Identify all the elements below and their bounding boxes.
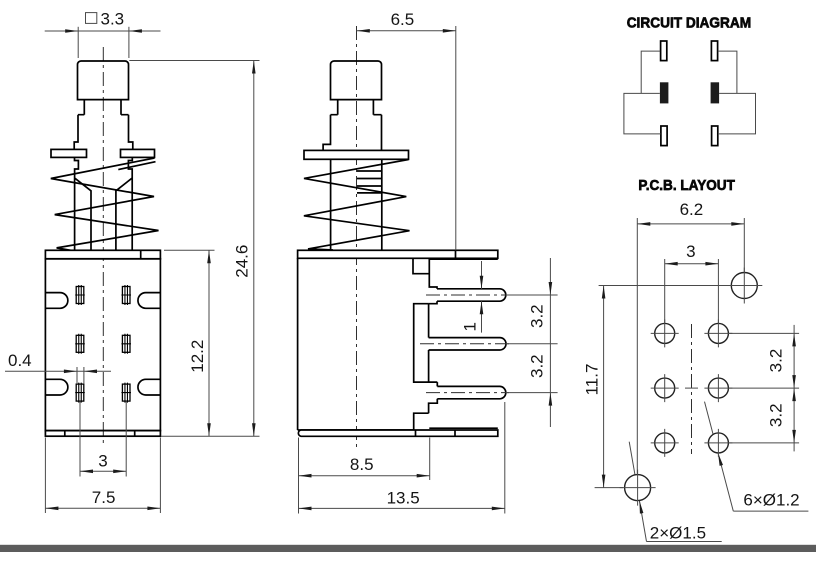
side notch top-left (front) bbox=[45, 293, 67, 309]
hole small r1c2 bbox=[704, 319, 732, 347]
dimension 3 (pin spacing, front) bbox=[80, 402, 126, 477]
dimension 3.2 lower (pin pitch, side) bbox=[528, 354, 547, 378]
dimension 1 (pin thickness) bbox=[460, 261, 483, 333]
hole small r1c1 bbox=[651, 319, 679, 347]
dimension 3.2 upper (pin pitch, side) bbox=[506, 258, 558, 427]
svg-text:3.3: 3.3 bbox=[101, 9, 125, 28]
pin row3 right (front) bbox=[121, 383, 131, 403]
pin 2 center line bbox=[420, 343, 509, 345]
svg-text:3.2: 3.2 bbox=[528, 354, 547, 378]
label 2 x dia 1.5 bbox=[647, 524, 722, 543]
svg-text:11.7: 11.7 bbox=[583, 364, 602, 396]
svg-text:24.6: 24.6 bbox=[233, 245, 252, 278]
body top plate (front) bbox=[45, 250, 160, 258]
button stem upper (side) bbox=[331, 100, 382, 115]
shaft left wall with jog (front) bbox=[75, 157, 79, 250]
title: P.C.B. LAYOUT bbox=[638, 178, 735, 194]
body bottom plate (front) bbox=[45, 431, 160, 437]
footer bar bbox=[0, 545, 816, 552]
button cap (side) bbox=[331, 61, 382, 100]
button stem upper (front) bbox=[78, 100, 129, 115]
pin row2 right (front) bbox=[121, 334, 131, 354]
dimension 7.5 (body width) bbox=[45, 438, 160, 514]
dimension 0.4 (pin width) bbox=[5, 351, 111, 384]
hook notch bottom (side) bbox=[414, 413, 429, 430]
wire right top bbox=[718, 51, 737, 93]
flange right bar (front) bbox=[121, 149, 155, 157]
pin 3 (side) bbox=[437, 386, 506, 398]
svg-text:1: 1 bbox=[460, 322, 479, 331]
leader line 2x holes bbox=[629, 442, 646, 542]
button cap (front) bbox=[78, 61, 129, 100]
svg-text:3.2: 3.2 bbox=[767, 349, 786, 373]
svg-text:3.2: 3.2 bbox=[767, 403, 786, 427]
hole small r3c2 bbox=[704, 429, 732, 457]
body (front) bbox=[45, 259, 160, 431]
flange left bar (front) bbox=[51, 149, 87, 157]
svg-text:13.5: 13.5 bbox=[387, 488, 420, 507]
svg-text:6.5: 6.5 bbox=[391, 10, 415, 29]
svg-text:3.2: 3.2 bbox=[528, 304, 547, 328]
movable contact left (filled) bbox=[660, 82, 669, 103]
spring coil backs / rungs (side) bbox=[357, 171, 382, 193]
hook notch top (side) bbox=[413, 258, 429, 273]
hole small r2c1 bbox=[651, 374, 679, 402]
pin row1 right (front) bbox=[121, 285, 131, 305]
svg-text:2×Ø1.5: 2×Ø1.5 bbox=[650, 524, 706, 543]
dimension 3.2 upper (pcb rows) bbox=[729, 325, 799, 452]
dimension 12.2 (body height) bbox=[164, 250, 215, 436]
svg-text:P.C.B. LAYOUT: P.C.B. LAYOUT bbox=[638, 178, 735, 194]
hole small r2c2 bbox=[704, 374, 732, 402]
pin 1 center line bbox=[426, 294, 509, 296]
flange (side) bbox=[304, 150, 409, 159]
movable contact right (filled) bbox=[711, 82, 720, 103]
wire left top bbox=[641, 51, 660, 93]
leader line 6x holes bbox=[705, 402, 734, 512]
svg-text:7.5: 7.5 bbox=[92, 488, 116, 507]
svg-text:CIRCUIT DIAGRAM: CIRCUIT DIAGRAM bbox=[627, 16, 752, 32]
shaft right wall with jog (front) bbox=[128, 157, 132, 250]
center line (side view) bbox=[356, 26, 358, 450]
svg-text:6×Ø1.2: 6×Ø1.2 bbox=[743, 491, 799, 510]
svg-text:8.5: 8.5 bbox=[350, 455, 374, 474]
body bottom plate (side) bbox=[298, 428, 497, 436]
pcb center line bbox=[685, 324, 698, 454]
wire left pole bbox=[624, 93, 661, 133]
pin row1 left (front) bbox=[75, 285, 85, 305]
hole big bottom-left bbox=[620, 470, 656, 506]
shaft below flange (side) bbox=[331, 159, 382, 250]
svg-text:3: 3 bbox=[98, 452, 107, 471]
pin 3 center line bbox=[426, 392, 509, 394]
pin row2 left (front) bbox=[75, 334, 85, 354]
side notch bottom-right (front) bbox=[138, 379, 160, 395]
svg-text:3: 3 bbox=[686, 242, 695, 261]
terminal bottom-right bbox=[712, 126, 718, 146]
pin 2 (side) bbox=[429, 338, 506, 350]
hole big top-right bbox=[726, 268, 762, 304]
dimension 6.2 (pcb) bbox=[637, 200, 744, 475]
dimension 24.6 (total height) bbox=[129, 61, 259, 437]
center line (front view) bbox=[102, 47, 104, 446]
dimension 3 (pcb columns) bbox=[665, 242, 719, 323]
spring (front) bbox=[51, 158, 159, 253]
side notch bottom-left (front) bbox=[45, 379, 67, 395]
side notch top-right (front) bbox=[138, 293, 160, 309]
spring (side) bbox=[304, 160, 410, 251]
dimension 11.7 (pcb height) bbox=[583, 286, 757, 488]
dimension 8.5 (body depth) bbox=[299, 438, 430, 514]
terminal bottom-left bbox=[661, 126, 667, 146]
terminal top-right bbox=[711, 41, 717, 61]
svg-text:0.4: 0.4 bbox=[8, 351, 32, 370]
dimension 3.3 (square) top bbox=[45, 9, 161, 58]
button stem lower (side) bbox=[323, 115, 381, 151]
hole small r3c1 bbox=[651, 429, 679, 457]
pin 1 (side) bbox=[437, 289, 506, 301]
wire right pole bbox=[718, 93, 756, 133]
label 6 x dia 1.2 bbox=[733, 491, 808, 512]
dimension 3.2 lower (pcb rows) bbox=[767, 403, 786, 427]
terminal top-left bbox=[661, 41, 667, 61]
button stem lower (front) bbox=[74, 115, 133, 150]
body top plate (side) bbox=[298, 250, 498, 259]
title: CIRCUIT DIAGRAM bbox=[627, 16, 752, 32]
dimension 6.5 bbox=[357, 10, 456, 250]
pin row3 left (front) bbox=[75, 383, 85, 403]
svg-text:6.2: 6.2 bbox=[680, 200, 704, 219]
svg-text:12.2: 12.2 bbox=[188, 340, 207, 373]
funnel skirt (front) bbox=[75, 178, 132, 250]
dimension 13.5 (total depth) bbox=[299, 402, 505, 514]
body outline (side) bbox=[298, 258, 438, 430]
recess box (side) bbox=[414, 304, 438, 382]
